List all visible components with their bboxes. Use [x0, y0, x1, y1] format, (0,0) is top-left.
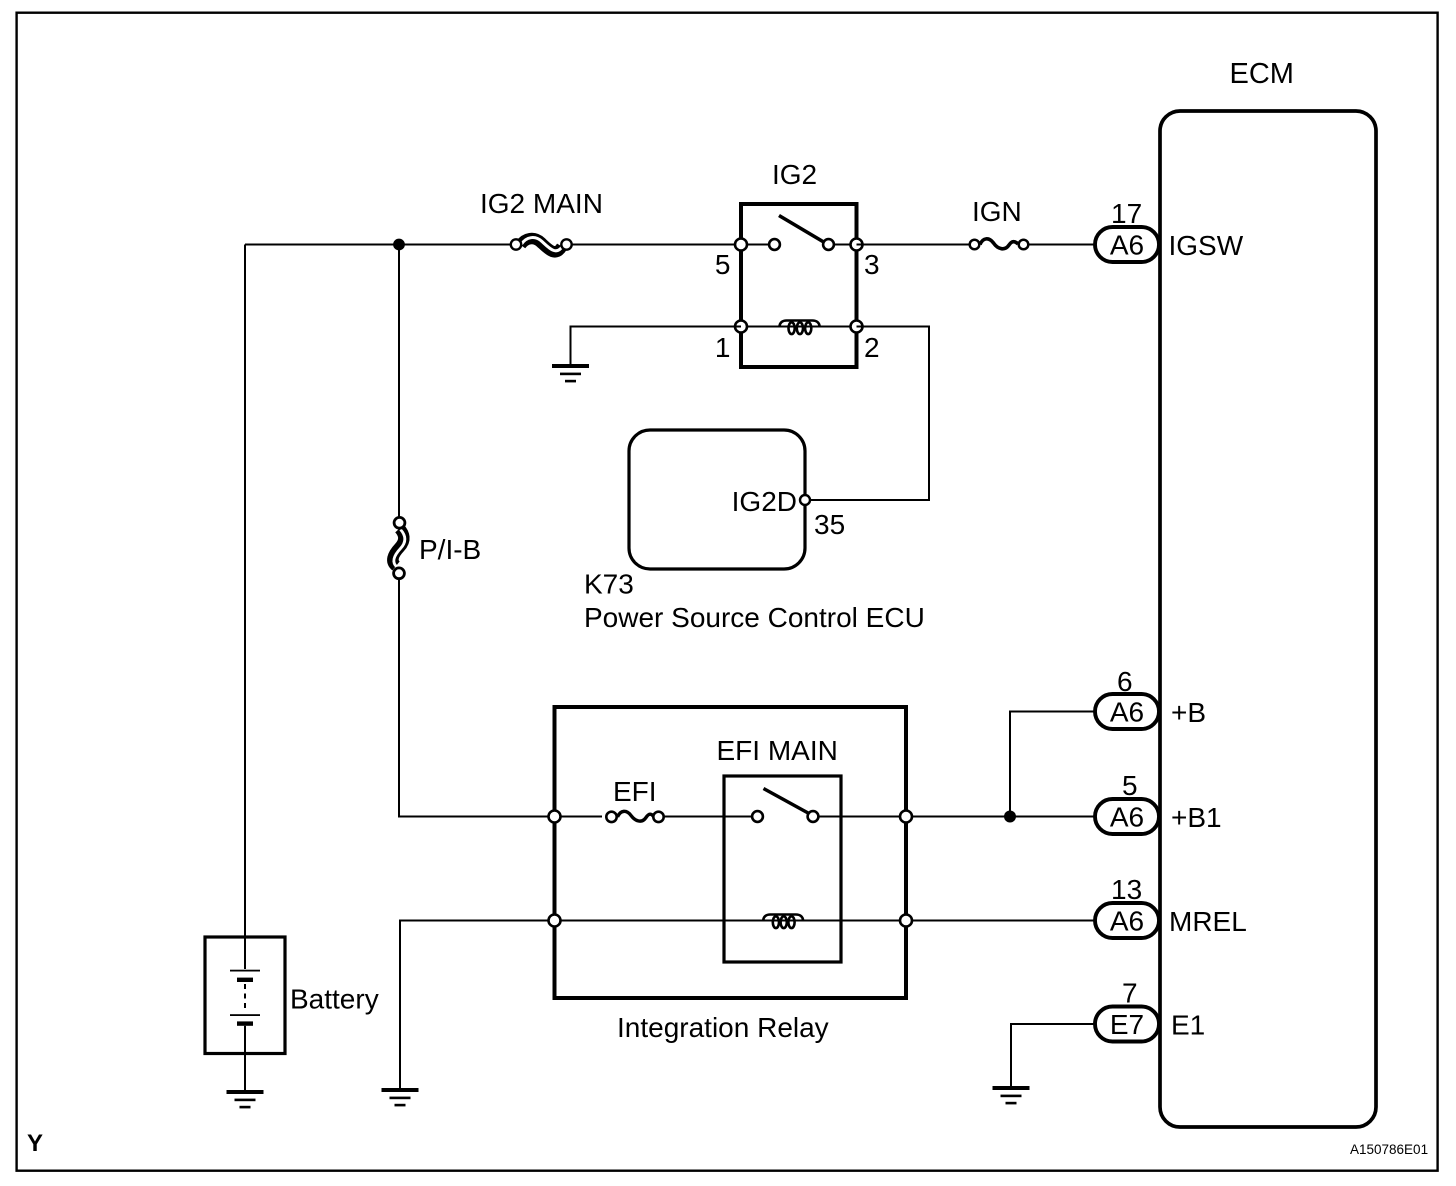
svg-text:3: 3	[864, 249, 880, 280]
connector pin A6-17 IGSW	[1095, 227, 1159, 262]
svg-text:A6: A6	[1110, 906, 1144, 937]
ground for IG2 coil	[552, 364, 589, 382]
svg-text:Battery: Battery	[290, 984, 379, 1015]
pin terminal IG2 pin2	[851, 321, 863, 333]
svg-text:EFI MAIN: EFI MAIN	[717, 735, 838, 766]
ECM box	[1160, 111, 1376, 1127]
wire relay coil to ground	[400, 921, 548, 1089]
wire switch to relay right edge	[819, 816, 906, 818]
svg-text:EFI: EFI	[613, 776, 657, 807]
wire EFI fuse to switch	[664, 816, 752, 818]
svg-text:K73: K73	[584, 569, 634, 600]
svg-text:E1: E1	[1171, 1010, 1205, 1041]
relay Integration Relay box	[555, 707, 907, 998]
connector pin A6-13 MREL	[1095, 903, 1159, 938]
pin terminal relay left coil	[549, 915, 561, 927]
svg-text:5: 5	[715, 249, 731, 280]
svg-text:5: 5	[1122, 770, 1138, 801]
svg-text:IGSW: IGSW	[1169, 230, 1244, 261]
svg-text:Integration Relay: Integration Relay	[617, 1012, 829, 1043]
node junction B+ at x399	[393, 239, 405, 251]
svg-text:ECM: ECM	[1230, 58, 1294, 90]
svg-text:MREL: MREL	[1169, 906, 1247, 937]
pin terminal relay left EFI	[549, 811, 561, 823]
pin IG2D circle	[800, 495, 810, 505]
ECU K73 box	[629, 430, 805, 569]
svg-text:1: 1	[715, 332, 731, 363]
wire IG2 pin2 to K73 IG2D	[810, 327, 929, 501]
pin terminal relay right coil	[900, 915, 912, 927]
pin terminal relay right EFI	[900, 811, 912, 823]
svg-text:35: 35	[814, 509, 845, 540]
wire relay to +B1 pin	[913, 816, 1096, 818]
battery	[205, 937, 285, 1090]
svg-text:+B: +B	[1171, 697, 1206, 728]
wire relay to MREL pin	[913, 920, 1096, 922]
wire EFI line inside relay	[555, 816, 603, 818]
svg-text:IGN: IGN	[972, 196, 1022, 227]
connector pin A6-5 +B1	[1095, 799, 1159, 834]
svg-text:IG2: IG2	[772, 159, 817, 190]
wire fuse to IG2 relay pin 5	[572, 244, 741, 246]
pin terminal IG2 pin5	[735, 239, 747, 251]
relay EFI MAIN box	[724, 776, 841, 962]
pin terminal IG2 pin1	[735, 321, 747, 333]
svg-text:13: 13	[1111, 874, 1142, 905]
relay IG2 box	[741, 204, 857, 367]
svg-text:Y: Y	[27, 1130, 43, 1157]
svg-text:E7: E7	[1110, 1009, 1144, 1040]
ground for battery	[227, 1090, 264, 1108]
ground for relay coil	[382, 1088, 419, 1106]
svg-text:Power Source Control ECU: Power Source Control ECU	[584, 602, 925, 633]
coil EFI MAIN relay	[763, 915, 803, 929]
coil IG2 relay	[780, 321, 820, 335]
svg-text:A150786E01: A150786E01	[1350, 1142, 1428, 1157]
wire relay coil line	[555, 920, 907, 922]
wire junction up to +B pin	[1010, 712, 1095, 817]
wire E1 pin to ground	[1011, 1024, 1095, 1086]
wire IG2 pin1 to ground	[571, 327, 742, 365]
svg-text:IG2 MAIN: IG2 MAIN	[480, 188, 603, 219]
connector pin E7-7 E1	[1095, 1007, 1159, 1042]
IGN fuse	[970, 239, 1029, 249]
switch EFI MAIN contacts and blade	[752, 789, 818, 822]
svg-text:A6: A6	[1110, 802, 1144, 833]
wire P/I-B down to EFI line	[399, 580, 548, 817]
svg-text:6: 6	[1117, 666, 1133, 697]
svg-text:A6: A6	[1110, 230, 1144, 261]
svg-text:IG2D: IG2D	[732, 486, 797, 517]
wire switch to IG2 pin3	[835, 244, 857, 246]
wire junction to P/I-B	[398, 245, 400, 518]
svg-text:7: 7	[1122, 978, 1138, 1009]
svg-text:17: 17	[1111, 198, 1142, 229]
svg-text:A6: A6	[1110, 697, 1144, 728]
switch IG2 contacts and blade	[769, 216, 834, 250]
fusible link IG2 MAIN	[511, 238, 572, 252]
node junction +B1	[1004, 811, 1016, 823]
wire IG2 pin3 to IGN fuse	[857, 244, 970, 246]
wire IG2 coil line	[741, 326, 857, 328]
connector pin A6-6 +B	[1095, 694, 1159, 729]
ground for E1	[993, 1086, 1030, 1104]
fuse EFI	[606, 811, 663, 822]
svg-text:+B1: +B1	[1171, 802, 1222, 833]
svg-text:P/I-B: P/I-B	[419, 534, 481, 565]
wire battery positive top horizontal	[245, 244, 510, 246]
wire battery positive vertical drop	[244, 245, 246, 938]
fusible link P/I-B	[393, 517, 405, 578]
wire IGN fuse to IGSW pin	[1029, 244, 1095, 246]
svg-text:2: 2	[864, 332, 880, 363]
wire IG2 pin5 to switch contact	[741, 244, 768, 246]
pin terminal IG2 pin3	[851, 239, 863, 251]
